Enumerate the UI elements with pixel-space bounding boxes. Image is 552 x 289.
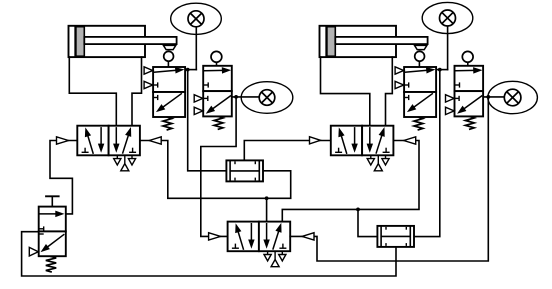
wire lamp H3 drop line bbox=[447, 27, 449, 70]
valve 0V1 middle 5/2 valve bbox=[228, 222, 291, 267]
junction node 2 bbox=[234, 95, 238, 99]
junction node B (bus to AND-V2) bbox=[356, 208, 360, 212]
start valve S1 3/2 push-button valve bbox=[29, 196, 66, 271]
pilot triangle valve 0V1 right bbox=[302, 233, 314, 240]
wire valve-2S2 output to valve 0V1 right pilot bbox=[290, 97, 488, 261]
cam on rod of cylinder 1A bbox=[163, 45, 175, 49]
wire valve-2S2 output to lamp H4 bbox=[483, 96, 504, 98]
valve 2S2 3/2 limit valve bbox=[446, 51, 484, 129]
wire valve-2S1 output to node with lamp H3 and AND-V2 bbox=[436, 69, 447, 71]
lamp H2 bbox=[241, 82, 293, 114]
wire lamp H1 drop line bbox=[195, 27, 197, 70]
wire 0V1 port B to valve 2V1 right pilot bus bbox=[282, 141, 419, 222]
AND valve V2 (two-pressure valve) bbox=[377, 226, 414, 247]
cam on rod of cylinder 2A bbox=[415, 45, 427, 49]
wire node-2 down to valve 0V1 left pilot bbox=[201, 97, 236, 237]
pilot triangle valve 1V1 right bbox=[149, 137, 161, 144]
valve 2S1 3/2 roller limit valve bbox=[395, 51, 436, 129]
wire AND-V2 output to start-valve supply bus bbox=[22, 232, 396, 276]
valve 1V1 main 5/2 valve bbox=[77, 126, 140, 171]
wire valve-1S2 output to lamp H2 bbox=[232, 96, 259, 98]
wire cylinder-1A cap port to valve 1V1 port A bbox=[69, 57, 116, 126]
AND valve V1 (two-pressure valve) bbox=[226, 160, 263, 181]
junction node 3 bbox=[438, 68, 442, 72]
lamp H3 bbox=[422, 2, 473, 33]
wire valve 1V1 right pilot to bus A (port A of 0V1) bbox=[140, 141, 291, 199]
pilot triangle valve 1V1 left bbox=[57, 137, 69, 144]
lamp H4 bbox=[488, 81, 538, 113]
valve 1S1 3/2 roller limit valve bbox=[144, 51, 185, 129]
wire valve-1S1 output to node with lamp H1 and AND-V1 bbox=[185, 69, 196, 71]
pilot triangle valve 0V1 left bbox=[209, 233, 221, 240]
wire cylinder-1A rod port to valve 1V1 port B bbox=[132, 57, 142, 126]
wire cylinder-2A rod port to valve 2V1 port B bbox=[386, 57, 393, 126]
pilot triangle valve 2V1 left bbox=[310, 137, 321, 144]
wire cylinder-2A cap port to valve 2V1 port A bbox=[321, 57, 370, 126]
junction node 4 bbox=[486, 95, 490, 99]
wire node-3 down to AND valve V2 right input bbox=[414, 70, 440, 237]
lamp H1 bbox=[171, 3, 222, 34]
wire AND-V1 output to valve 2V1 left pilot bbox=[244, 141, 330, 161]
junction node 1 bbox=[186, 68, 190, 72]
pilot triangle valve 2V1 right bbox=[404, 137, 416, 144]
wire node-B down to AND-V2 left input bbox=[358, 209, 377, 236]
cylinder 2A bbox=[320, 26, 428, 57]
valve 1S2 3/2 limit valve bbox=[194, 51, 232, 129]
cylinder 1A bbox=[69, 26, 177, 57]
wire manual valve S1 output to valve 1V1 left pilot bbox=[50, 141, 77, 214]
wire node-1 down to AND valve V1 left input bbox=[188, 70, 227, 171]
wire 0V1 port A drop bbox=[266, 198, 268, 221]
junction node A (0V1 port A) bbox=[265, 196, 269, 200]
valve 2V1 main 5/2 valve bbox=[331, 126, 394, 171]
